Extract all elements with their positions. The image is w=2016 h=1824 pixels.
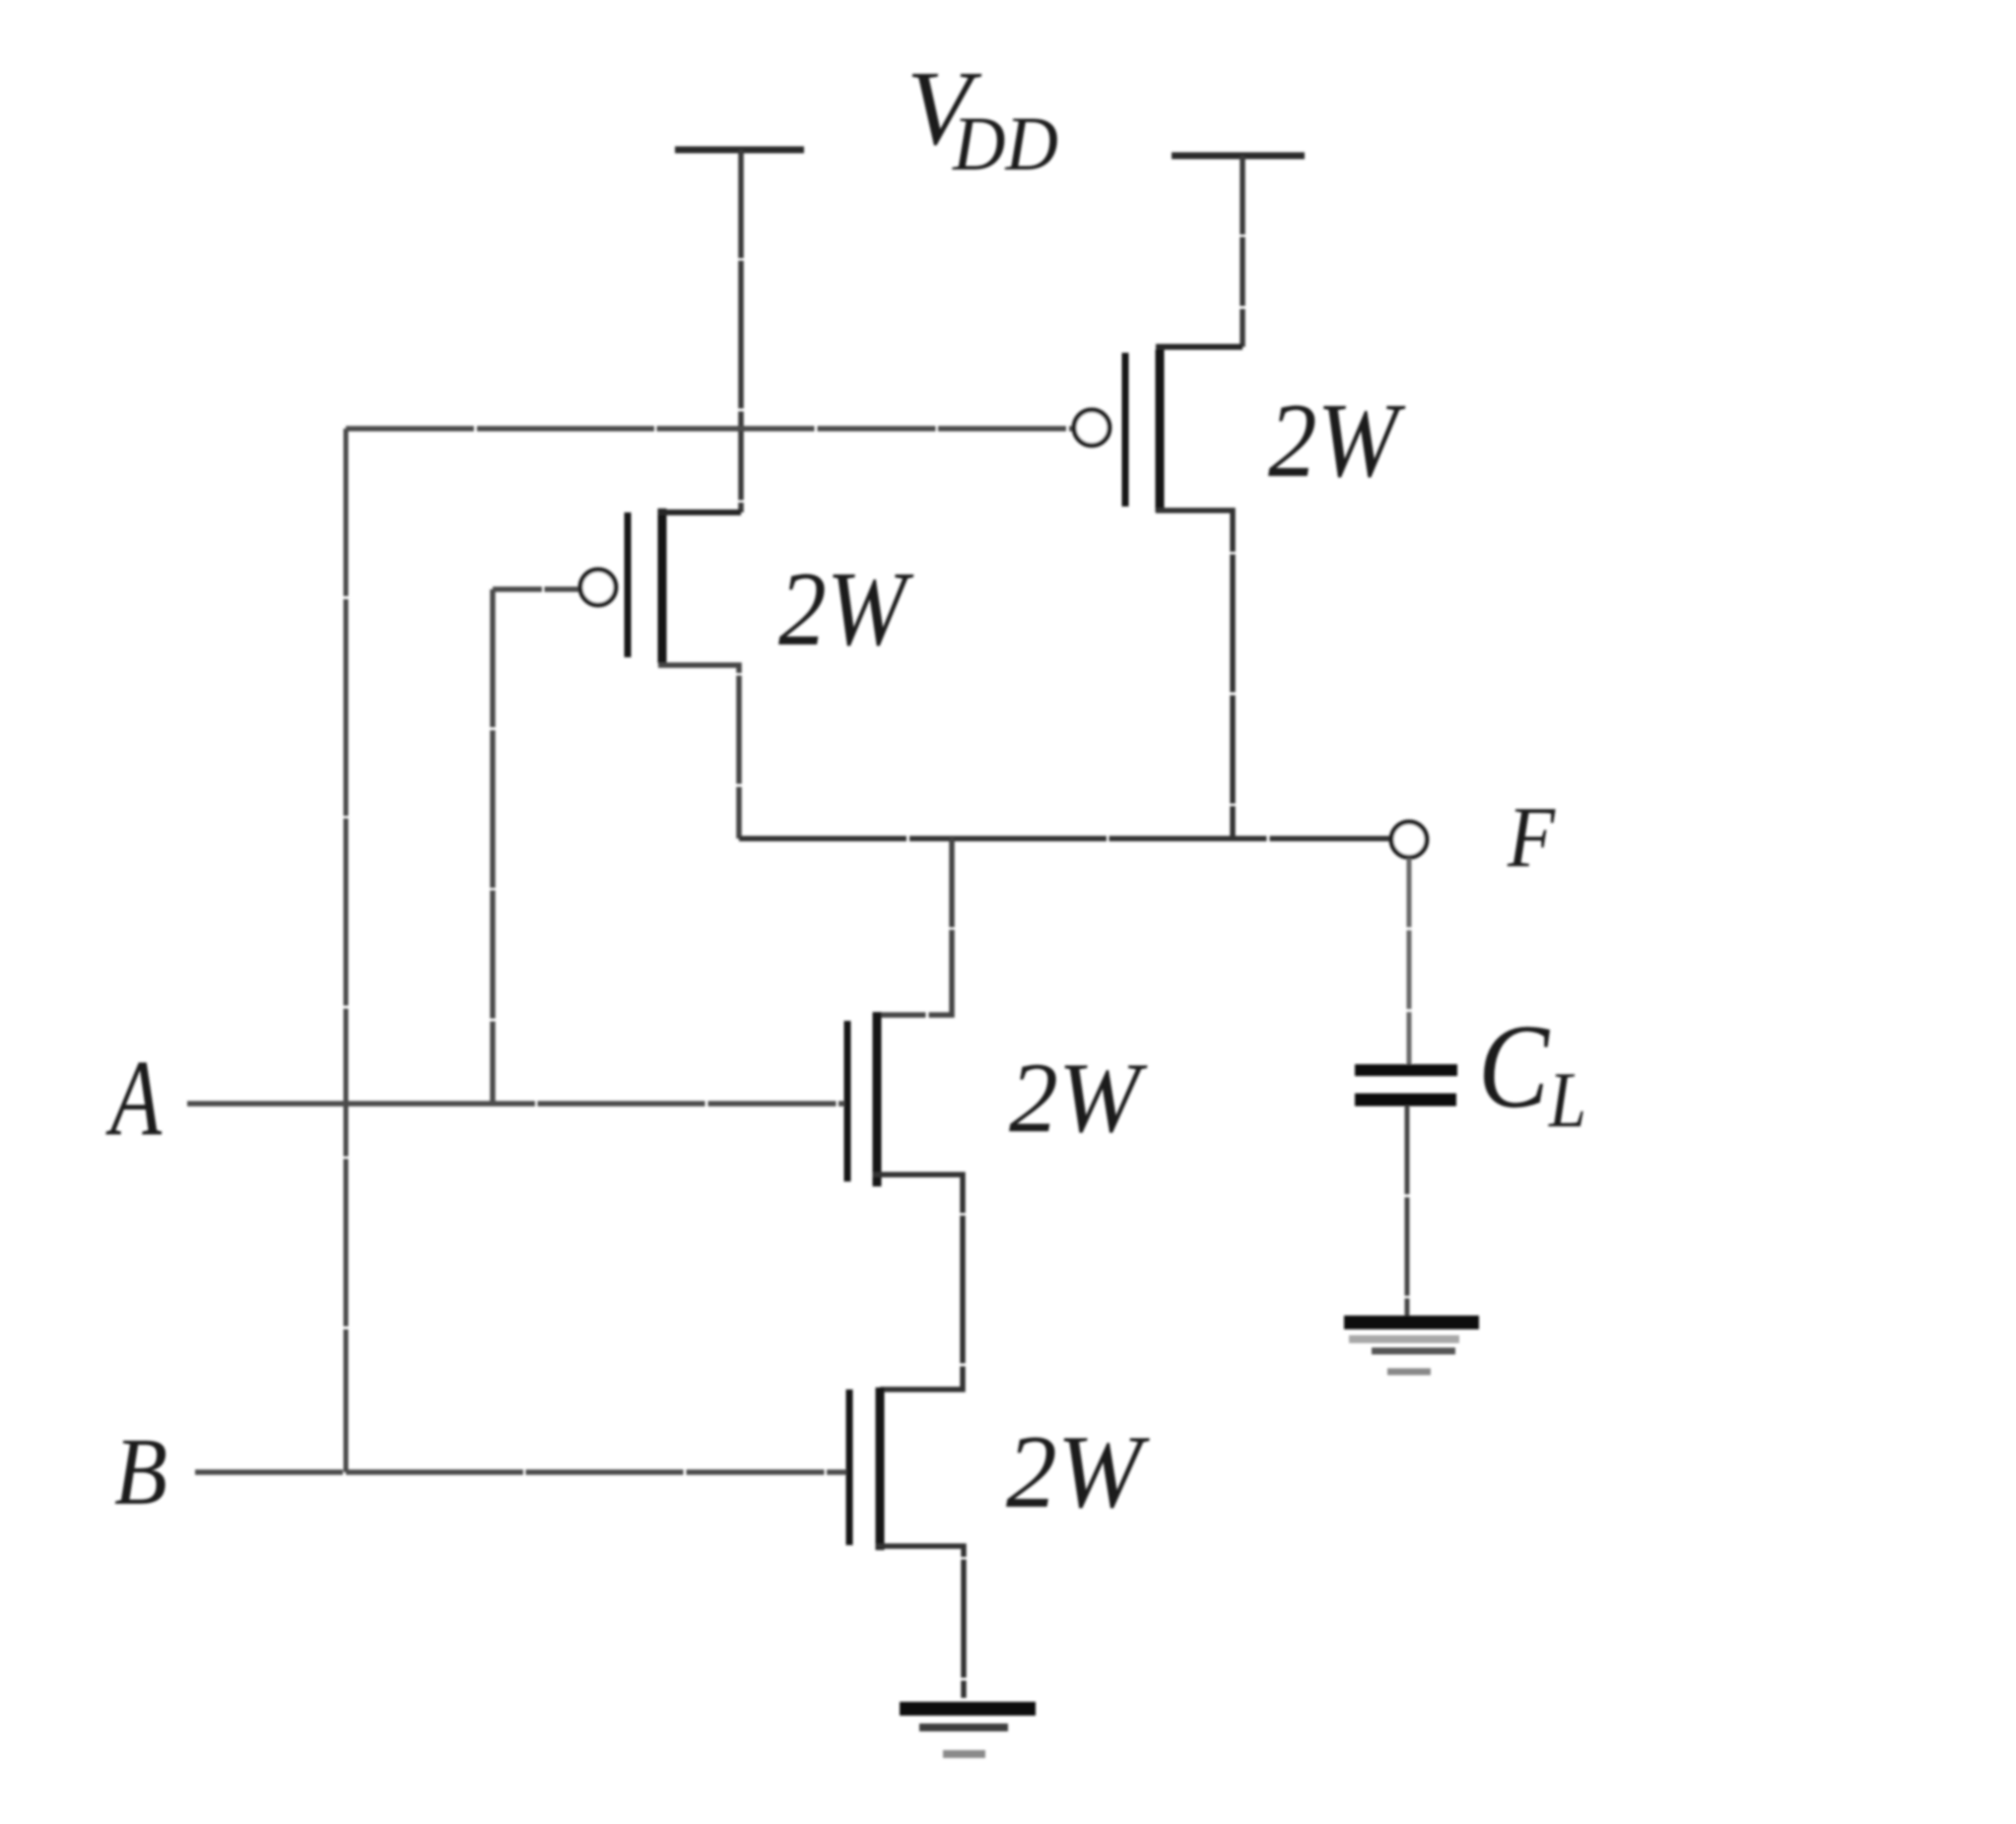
transistor M1 channel bar [658,508,667,663]
wire CL bottom to ground [1405,1106,1410,1317]
wire VDD right vertical to M2 source [1240,156,1245,347]
wire output node F horizontal [739,836,1390,842]
svg-text:A: A [105,1038,163,1158]
wire input B horizontal [195,1469,846,1475]
svg-text:DD: DD [952,101,1058,186]
svg-text:2W: 2W [1009,1043,1148,1154]
svg-text:2W: 2W [778,551,914,668]
wire VDD left vertical to M1 source [738,150,744,512]
capacitor CL label [1478,1000,1586,1144]
svg-text:C: C [1478,1000,1550,1133]
wire M2 drain lead down to output node [1156,510,1233,839]
node F bubble [1391,822,1427,857]
wire input A vertical riser [490,589,496,1104]
transistor M4 channel bar [876,1387,885,1550]
wire gate net B to M2 (horizontal) [346,426,1073,432]
transistor M3 channel bar [873,1012,882,1186]
transistor M2 channel bar [1156,350,1165,512]
wire input A horizontal [187,1101,844,1107]
svg-text:2W: 2W [1268,382,1406,500]
power rail VDD right bar [1172,153,1305,160]
svg-text:F: F [1507,790,1556,886]
svg-text:L: L [1548,1057,1586,1144]
wire M3 source lead down to M4 drain [873,1175,963,1389]
transistor M2 gate bar [1122,353,1129,507]
transistor M3 (NMOS 2W, input A) gate bar [844,1021,851,1182]
wire M1 source lead to VDD [658,509,741,515]
wire M1 drain lead down to output node [658,665,739,839]
power rail VDD left bar [675,147,804,154]
wire F to capacitor CL [1407,858,1412,1065]
ground symbol under M4 [900,1702,1036,1716]
wire M1 gate lead [493,586,579,592]
transistor M2 (PMOS 2W, top right) gate bubble [1074,410,1109,445]
wire M4 source lead down to ground [876,1546,964,1698]
ground symbol under CL [1344,1316,1479,1329]
svg-text:2W: 2W [1006,1414,1150,1529]
node VDD label [907,50,1058,186]
wire junction to M3 drain [877,839,952,1015]
svg-text:B: B [114,1419,168,1525]
transistor M1 (PMOS 2W, middle left) gate bubble [580,570,616,605]
wire M2 source lead [1156,344,1243,350]
capacitor CL top plate [1355,1064,1457,1076]
transistor M4 (NMOS 2W, input B) gate bar [846,1389,853,1545]
capacitor CL bottom plate [1355,1094,1456,1107]
transistor M1 gate bar [625,512,632,657]
wire input B vertical riser [344,429,349,1472]
